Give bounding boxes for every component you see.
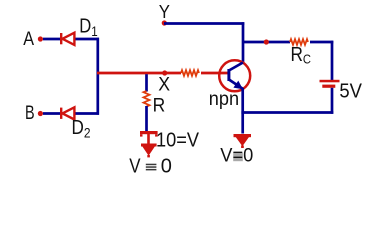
resistor RC zigzag [290, 39, 308, 45]
wire base (red) left segment [97, 72, 181, 75]
wire RC to right rail [310, 41, 333, 44]
svg-text:npn: npn [209, 88, 239, 110]
wire emitter vertical [241, 88, 244, 134]
ground battery plate [140, 131, 158, 144]
svg-text:B: B [25, 103, 35, 124]
svg-text:V=0: V=0 [220, 146, 253, 167]
wire D1 to junction [76, 38, 100, 41]
wire right rail bottom [331, 88, 334, 114]
label V=0 [233, 153, 243, 162]
battery 5V [320, 80, 340, 88]
svg-text:A: A [23, 29, 34, 50]
wire collector vertical [242, 22, 245, 63]
diode D2 [61, 107, 74, 119]
svg-text:Y: Y [159, 1, 170, 22]
svg-text:5V: 5V [339, 80, 362, 102]
svg-text:10=V: 10=V [156, 129, 200, 151]
wire collector to RC [243, 41, 290, 44]
resistor base zigzag [181, 70, 199, 76]
wire A to D1 [43, 38, 60, 41]
wire D2 to junction [76, 112, 100, 115]
transistor collector lead [229, 63, 243, 71]
node X [162, 70, 167, 75]
transistor emitter arrow [233, 81, 243, 90]
transistor Q1 circle [219, 60, 250, 91]
ground arrow at emitter [234, 134, 252, 148]
wire bottom rail [241, 111, 333, 114]
wire B to D2 [43, 112, 60, 115]
node B [38, 111, 43, 116]
diode D1 [61, 33, 74, 45]
wire Y rail [164, 22, 244, 25]
resistor R zigzag [144, 91, 150, 106]
transistor base bar [227, 69, 230, 81]
wire R to ground [145, 106, 148, 132]
node A [38, 36, 43, 41]
wire base (red) right segment [201, 72, 228, 75]
wire right rail top [331, 41, 334, 80]
node Y [162, 20, 167, 25]
svg-text:V: V [129, 155, 141, 177]
transistor emitter lead [229, 80, 243, 89]
wire stub to R [145, 74, 148, 91]
ground arrow under R [141, 144, 157, 158]
wire diode junction vertical [96, 38, 99, 115]
svg-text:R: R [153, 95, 166, 116]
node on RC wire [264, 39, 269, 44]
svg-text:X: X [158, 74, 170, 95]
svg-text:0: 0 [161, 155, 172, 177]
